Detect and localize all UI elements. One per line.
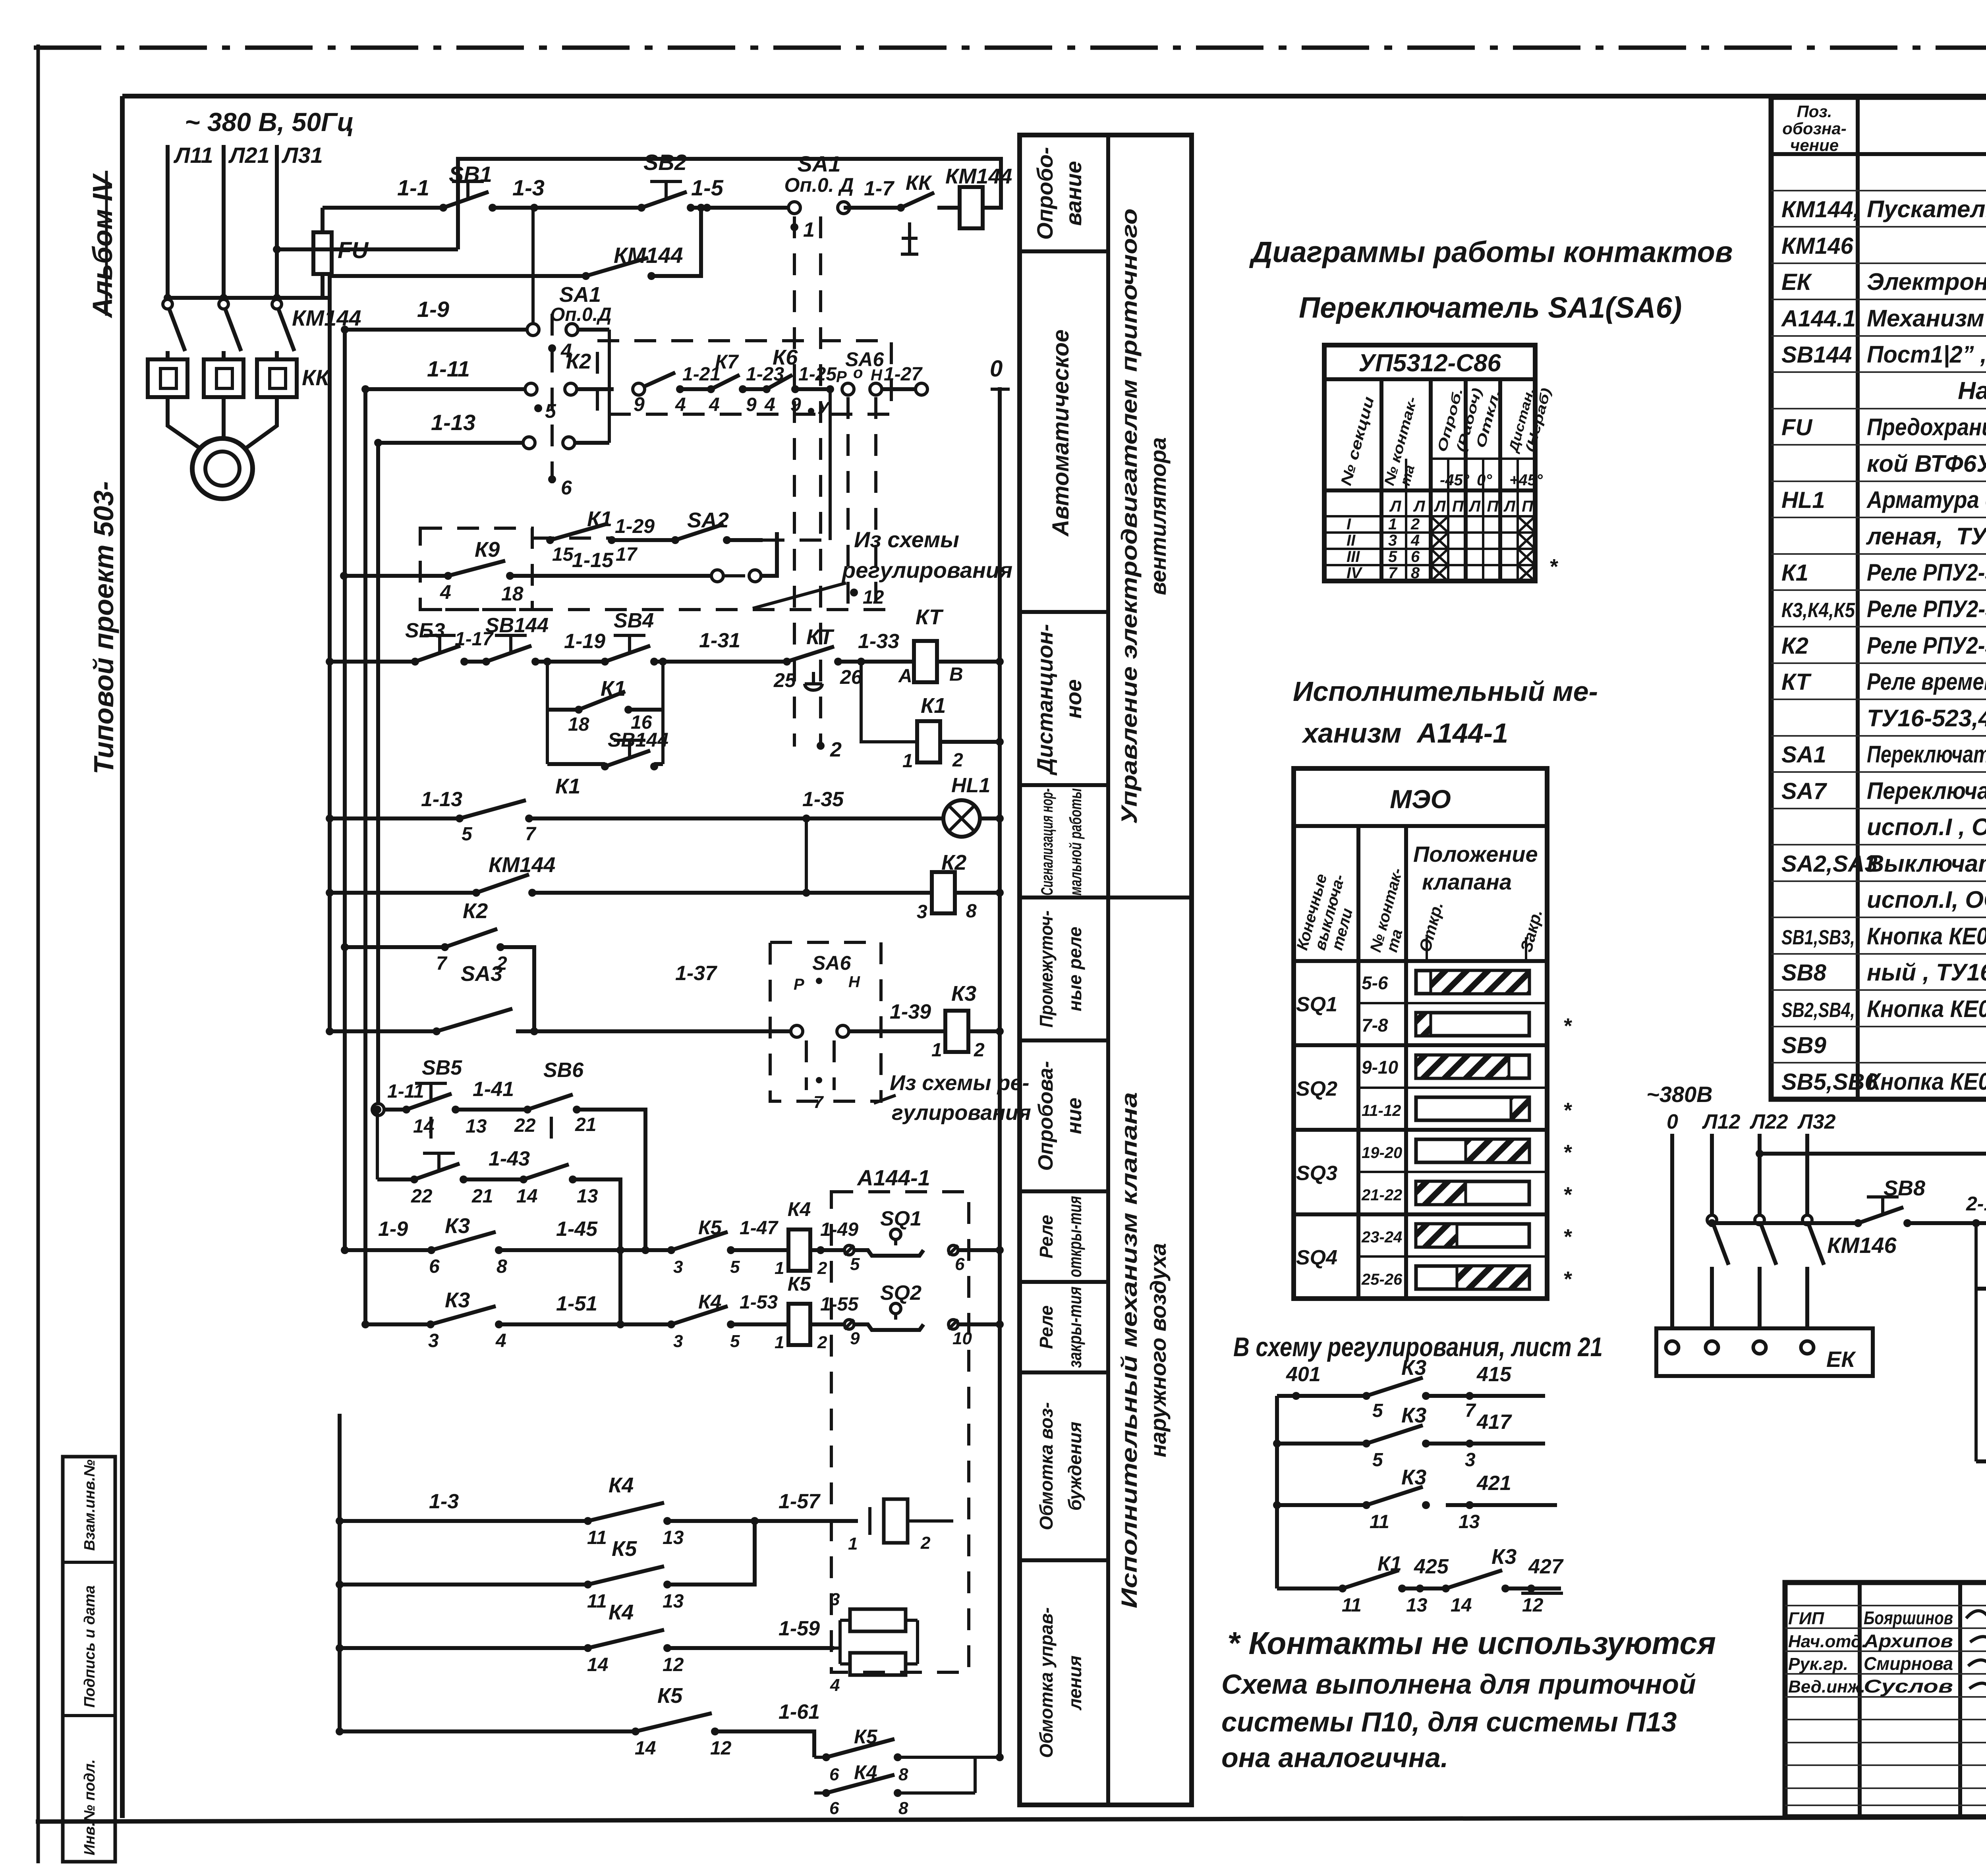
svg-text:SВ2,SВ4,: SВ2,SВ4, — [1781, 999, 1855, 1022]
rung R20 K5 — [340, 1583, 588, 1586]
svg-text:1-13: 1-13 — [421, 788, 462, 811]
svg-text:1-3: 1-3 — [512, 175, 545, 200]
svg-text:1-13: 1-13 — [431, 410, 475, 435]
svg-text:14: 14 — [1451, 1595, 1472, 1616]
svg-text:К3: К3 — [445, 1214, 470, 1238]
svg-text:Л: Л — [1468, 498, 1481, 515]
svg-text:Кнопка КЕ011УЗ,испол.5,толкате: Кнопка КЕ011УЗ,испол.5,толкатель крас- — [1867, 923, 1986, 950]
svg-text:13: 13 — [663, 1591, 684, 1612]
svg-text:К3: К3 — [1401, 1356, 1426, 1380]
svg-text:HL1: HL1 — [951, 774, 990, 797]
svg-text:КТ: КТ — [806, 625, 835, 649]
svg-text:II: II — [1347, 532, 1356, 549]
svg-text:+45°: +45° — [1509, 471, 1543, 489]
svg-text:*: * — [1549, 555, 1559, 579]
svg-text:19-20: 19-20 — [1362, 1144, 1402, 1162]
svg-text:6: 6 — [955, 1255, 965, 1274]
svg-text:КМ144: КМ144 — [945, 164, 1012, 188]
svg-text:1-29: 1-29 — [615, 515, 655, 537]
rung R16 test row2 — [376, 1110, 379, 1179]
svg-text:Выключатель пакетный ПВ1-10УЗ,: Выключатель пакетный ПВ1-10УЗ, — [1867, 850, 1986, 877]
reg rung 421 — [1277, 1503, 1366, 1507]
svg-text:2: 2 — [817, 1258, 827, 1278]
svg-text:Реле: Реле — [1036, 1305, 1057, 1349]
svg-text:К3: К3 — [1401, 1403, 1426, 1427]
svg-text:ТУ16-523,472-79: ТУ16-523,472-79 — [1867, 705, 1986, 731]
svg-text:417: 417 — [1476, 1411, 1512, 1434]
svg-text:23-24: 23-24 — [1361, 1229, 1402, 1246]
svg-text:4: 4 — [764, 394, 775, 415]
svg-text:Л: Л — [1413, 498, 1426, 515]
svg-text:14: 14 — [635, 1738, 656, 1759]
svg-text:системы П10, для системы П13: системы П10, для системы П13 — [1221, 1706, 1677, 1737]
svg-text:1-39: 1-39 — [890, 1000, 931, 1023]
svg-text:SA1: SA1 — [1781, 742, 1826, 768]
rung R7 K9 from regulation — [420, 528, 532, 610]
svg-text:4: 4 — [830, 1675, 840, 1695]
svg-text:1-43: 1-43 — [489, 1147, 530, 1170]
svg-text:Л31: Л31 — [281, 143, 323, 168]
POWER SECTION — [148, 107, 369, 499]
svg-text:1-59: 1-59 — [779, 1617, 820, 1640]
reg rung 401 — [1292, 1392, 1300, 1400]
svg-text:К3,К4,К5: К3,К4,К5 — [1781, 599, 1855, 622]
svg-text:9: 9 — [746, 394, 757, 415]
rung R19 field winding K4 — [340, 1519, 588, 1523]
svg-text:13: 13 — [1406, 1595, 1428, 1616]
svg-text:~380В: ~380В — [1646, 1082, 1713, 1107]
svg-text:Вед.инж.: Вед.инж. — [1788, 1677, 1865, 1697]
rung R3 wire 1-9 — [345, 328, 527, 332]
svg-text:Исполнительный ме-: Исполнительный ме- — [1293, 676, 1598, 707]
svg-text:Л12: Л12 — [1702, 1110, 1741, 1133]
svg-text:25: 25 — [773, 669, 796, 691]
motor M — [168, 411, 201, 449]
svg-text:Механизм исполнительный МЭО: Механизм исполнительный МЭО — [1867, 305, 1986, 332]
svg-text:4: 4 — [675, 394, 686, 415]
HEATER CIRCUIT — [1646, 1082, 1986, 1489]
svg-text:5: 5 — [730, 1332, 740, 1351]
drawing frame top line — [122, 94, 1986, 98]
svg-text:SВ5,SВ6: SВ5,SВ6 — [1781, 1069, 1878, 1095]
svg-text:вание: вание — [1061, 161, 1086, 226]
svg-text:0°: 0° — [1477, 471, 1492, 489]
svg-text:о: о — [853, 364, 863, 382]
svg-text:13: 13 — [1459, 1511, 1480, 1532]
svg-text:Рук.гр.: Рук.гр. — [1788, 1654, 1848, 1674]
svg-text:421: 421 — [1476, 1472, 1511, 1495]
svg-text:5: 5 — [462, 824, 473, 845]
svg-text:Реле времени РВП72-3122У4,~220: Реле времени РВП72-3122У4,~220В,8,8=3мин — [1867, 668, 1986, 695]
svg-text:П: П — [1487, 498, 1499, 515]
svg-text:21: 21 — [575, 1114, 596, 1135]
svg-text:* Контакты не используются: * Контакты не используются — [1227, 1625, 1716, 1661]
svg-text:*: * — [1563, 1225, 1573, 1249]
ACTUATOR TABLE MEO — [1293, 768, 1573, 1299]
svg-text:SВ1: SВ1 — [449, 162, 492, 187]
svg-text:I: I — [1347, 515, 1351, 533]
svg-text:Н: Н — [848, 973, 860, 991]
svg-text:На щите управления: На щите управления — [1958, 377, 1986, 405]
svg-text:К2: К2 — [1781, 633, 1808, 659]
svg-text:откры-тия: откры-тия — [1064, 1196, 1085, 1278]
svg-text:1: 1 — [775, 1333, 784, 1352]
svg-text:Л: Л — [1433, 498, 1446, 515]
svg-text:К2: К2 — [566, 349, 591, 373]
svg-text:*: * — [1563, 1014, 1573, 1038]
relay coil K1 — [861, 662, 917, 742]
svg-text:2: 2 — [974, 1040, 985, 1061]
svg-text:КТ: КТ — [1781, 669, 1812, 695]
REGULATION SCHEME LADDER — [1221, 1332, 1716, 1773]
svg-text:А144.1: А144.1 — [1781, 306, 1856, 332]
svg-text:1-1: 1-1 — [397, 175, 429, 200]
feed wire top — [1760, 1154, 1986, 1317]
svg-text:гулирования: гулирования — [892, 1101, 1031, 1125]
svg-text:Переключатель пакетный ПП2-10/: Переключатель пакетный ПП2-10/Н2УЗ, — [1867, 778, 1986, 804]
CONTROL LADDER — [273, 150, 1012, 1324]
svg-text:5: 5 — [850, 1255, 860, 1274]
svg-text:Смирнова: Смирнова — [1864, 1653, 1953, 1674]
svg-text:Обмотка управ-: Обмотка управ- — [1036, 1607, 1057, 1758]
rung R2 KM144 seal-in — [330, 274, 586, 278]
svg-text:4: 4 — [709, 394, 720, 415]
svg-text:7: 7 — [813, 1092, 824, 1112]
svg-text:3: 3 — [673, 1332, 683, 1351]
svg-text:9: 9 — [634, 393, 645, 415]
svg-text:Опробо-: Опробо- — [1032, 147, 1057, 240]
phase line L31 — [275, 145, 279, 298]
svg-text:П: П — [1452, 498, 1464, 515]
svg-text:9-10: 9-10 — [1362, 1057, 1398, 1078]
svg-text:МЭО: МЭО — [1390, 784, 1451, 814]
svg-text:ЕК: ЕК — [1781, 269, 1812, 295]
svg-text:Переключатель УП5312-С86УЗ,ТУ1: Переключатель УП5312-С86УЗ,ТУ16-524,074-… — [1867, 741, 1986, 768]
svg-text:15: 15 — [552, 544, 574, 565]
svg-text:FU: FU — [1781, 415, 1813, 440]
wire 1-5 — [691, 206, 788, 210]
svg-text:1: 1 — [1388, 515, 1397, 533]
svg-text:КМ144,: КМ144, — [1781, 197, 1860, 222]
svg-text:КМ144: КМ144 — [292, 305, 361, 330]
svg-text:4: 4 — [495, 1330, 506, 1351]
rung R12 K2 coil — [330, 891, 476, 895]
drawing frame left line — [120, 96, 125, 1818]
svg-text:Суслов: Суслов — [1864, 1676, 1953, 1697]
svg-text:*: * — [1563, 1183, 1573, 1206]
svg-text:7: 7 — [1388, 564, 1398, 582]
svg-text:*: * — [1563, 1098, 1573, 1122]
svg-text:Исполнительный механизм клапан: Исполнительный механизм клапана — [1117, 1092, 1142, 1608]
svg-text:Л21: Л21 — [228, 143, 270, 168]
svg-text:К4: К4 — [609, 1473, 634, 1497]
svg-text:Л32: Л32 — [1797, 1110, 1836, 1133]
thermal contact KK — [897, 204, 905, 212]
top dash-dot sheet border — [34, 46, 1986, 50]
svg-text:6: 6 — [1411, 548, 1420, 566]
svg-text:КК: КК — [302, 365, 330, 390]
svg-text:1-57: 1-57 — [779, 1490, 821, 1513]
svg-text:П: П — [1522, 498, 1534, 515]
svg-text:буждения: буждения — [1064, 1422, 1085, 1511]
svg-text:401: 401 — [1286, 1363, 1321, 1386]
svg-text:6: 6 — [561, 477, 572, 499]
svg-text:3: 3 — [673, 1257, 683, 1277]
rung R1 wire — [323, 206, 442, 210]
svg-text:III: III — [1347, 548, 1360, 566]
svg-text:12: 12 — [663, 1654, 684, 1675]
svg-text:Диаграммы работы контактов: Диаграммы работы контактов — [1249, 235, 1733, 268]
svg-text:1-9: 1-9 — [417, 297, 449, 322]
control rung SB8 SB9 — [1712, 1221, 1858, 1225]
svg-text:Пост1|2” , ПКЕ712-2УЗ „ТУ16-52: Пост1|2” , ПКЕ712-2УЗ „ТУ16-526.216-78 — [1867, 341, 1986, 368]
svg-text:13: 13 — [577, 1186, 598, 1207]
svg-text:1-41: 1-41 — [473, 1078, 514, 1101]
svg-text:SA1: SA1 — [798, 151, 841, 176]
svg-text:испол.I , ОСТ16.0526.001-77: испол.I , ОСТ16.0526.001-77 — [1867, 814, 1986, 840]
svg-text:1-47: 1-47 — [740, 1218, 779, 1239]
svg-text:SВ2: SВ2 — [643, 150, 687, 175]
svg-text:1-9: 1-9 — [378, 1218, 408, 1241]
svg-text:1-37: 1-37 — [675, 962, 717, 985]
interlock contact row K2 K7 K6 SA6 — [597, 341, 891, 414]
svg-text:2-1: 2-1 — [1966, 1193, 1986, 1215]
svg-text:Нач.отд.: Нач.отд. — [1788, 1632, 1866, 1651]
svg-text:SQ1: SQ1 — [880, 1207, 922, 1230]
svg-text:Н: Н — [871, 367, 883, 384]
svg-text:21-22: 21-22 — [1361, 1186, 1402, 1204]
svg-text:Реле РПУ2-36200ЗУЗ,~220В,ТУ16-: Реле РПУ2-36200ЗУЗ,~220В,ТУ16-523,331-78 — [1867, 632, 1986, 659]
switch SA6 lower — [770, 942, 881, 1101]
svg-text:SВ6: SВ6 — [543, 1059, 584, 1082]
vertical tie rung4 to rung6 — [829, 389, 832, 540]
svg-text:А: А — [898, 666, 912, 687]
svg-text:5: 5 — [1388, 548, 1397, 566]
svg-text:обозна-: обозна- — [1782, 119, 1846, 138]
svg-text:6: 6 — [829, 1765, 839, 1784]
svg-text:SQ4: SQ4 — [1296, 1246, 1337, 1269]
svg-text:SВ4: SВ4 — [614, 609, 654, 632]
svg-text:SВ5: SВ5 — [422, 1056, 462, 1079]
svg-text:2: 2 — [952, 750, 963, 771]
rung R17 SQ1 open circuit — [345, 1248, 431, 1252]
svg-text:4: 4 — [440, 581, 451, 603]
seal branch K1 contact and SB144 — [546, 662, 549, 764]
svg-text:425: 425 — [1414, 1555, 1449, 1578]
svg-text:3: 3 — [1465, 1449, 1476, 1471]
svg-text:8: 8 — [898, 1799, 908, 1818]
svg-text:К9: К9 — [475, 538, 500, 562]
svg-text:Управление электродвигателем п: Управление электродвигателем приточного — [1117, 208, 1142, 824]
PARTS TABLE — [1771, 97, 1986, 1099]
svg-text:427: 427 — [1528, 1555, 1564, 1578]
svg-text:КМ146: КМ146 — [1781, 233, 1853, 259]
contactor KM146 main contacts — [1707, 1215, 1717, 1225]
svg-text:закры-тия: закры-тия — [1064, 1287, 1085, 1368]
svg-text:25-26: 25-26 — [1361, 1271, 1403, 1288]
svg-text:4: 4 — [1410, 532, 1420, 549]
svg-text:чение: чение — [1790, 136, 1839, 154]
svg-text:КТ: КТ — [916, 605, 944, 629]
svg-text:11-12: 11-12 — [1362, 1102, 1401, 1119]
svg-text:КК: КК — [906, 172, 932, 195]
svg-text:SQ2: SQ2 — [880, 1282, 922, 1305]
svg-text:Из схемы ре-: Из схемы ре- — [890, 1071, 1030, 1095]
svg-text:11: 11 — [1342, 1595, 1362, 1616]
svg-text:5: 5 — [1372, 1400, 1383, 1421]
svg-text:3: 3 — [428, 1330, 439, 1351]
svg-text:Электронагреватель: Электронагреватель — [1867, 268, 1986, 295]
control winding coils — [838, 1620, 842, 1664]
rung R13 K2 contact — [345, 945, 445, 949]
svg-text:В: В — [949, 664, 963, 685]
svg-text:1-19: 1-19 — [564, 630, 605, 653]
top bus wire — [277, 247, 458, 251]
phase line L11 — [166, 145, 170, 298]
svg-text:вентилятора: вентилятора — [1146, 437, 1171, 595]
svg-text:8: 8 — [1411, 564, 1420, 582]
svg-text:Типовой проект 503-: Типовой проект 503- — [88, 481, 119, 774]
tie R11-R12 — [805, 818, 808, 893]
svg-text:кой ВТФ6УЗ, ТУ16-521.037-75: кой ВТФ6УЗ, ТУ16-521.037-75 — [1867, 450, 1986, 477]
svg-text:12: 12 — [1522, 1595, 1544, 1616]
phase line L21 — [222, 145, 226, 298]
svg-text:Промежуточ-: Промежуточ- — [1036, 911, 1057, 1028]
margin text Album IV — [87, 171, 118, 318]
svg-text:7: 7 — [1465, 1400, 1476, 1421]
svg-text:Подпись и дата: Подпись и дата — [81, 1585, 98, 1708]
svg-text:Предохранитель ППТ-10 с плавко: Предохранитель ППТ-10 с плавкой встав- — [1867, 414, 1986, 440]
svg-text:1-45: 1-45 — [556, 1218, 598, 1241]
svg-text:УП5312-С86: УП5312-С86 — [1358, 349, 1501, 377]
svg-text:Л: Л — [1389, 498, 1402, 515]
wire 1-7 — [844, 206, 901, 210]
svg-text:1-3: 1-3 — [429, 1490, 459, 1513]
svg-text:14: 14 — [516, 1186, 537, 1207]
rung R5 wire 1-13 — [378, 441, 523, 445]
wire 1-3 — [493, 206, 639, 210]
svg-text:22: 22 — [514, 1115, 536, 1136]
SWITCH TABLE UP5312-C86 — [1324, 345, 1559, 582]
svg-text:1-55: 1-55 — [820, 1294, 859, 1315]
left rail 1 — [328, 276, 332, 1031]
svg-text:К5: К5 — [657, 1684, 683, 1708]
svg-text:ние: ние — [1063, 1098, 1086, 1134]
heater EK — [1656, 1328, 1873, 1376]
pushbutton SB2 — [638, 204, 645, 212]
actuator box A144-1 — [831, 1192, 969, 1672]
svg-text:8: 8 — [496, 1256, 507, 1277]
bottom left rail — [338, 1414, 342, 1731]
thermal relay KK heaters — [148, 359, 187, 397]
svg-text:SQ3: SQ3 — [1296, 1162, 1337, 1185]
contactor coil KM144 — [960, 187, 983, 228]
svg-text:Оп.0.Д: Оп.0.Д — [550, 304, 612, 325]
left rail 4 — [376, 443, 380, 1110]
svg-text:Реле РПУ2-362023УЗ,~220В ТУ16-: Реле РПУ2-362023УЗ,~220В ТУ16-523,331-78 — [1867, 596, 1986, 622]
svg-text:2: 2 — [817, 1333, 827, 1352]
svg-text:1-25: 1-25 — [798, 364, 837, 385]
heater phase lines — [1670, 1134, 1674, 1331]
svg-text:Арматура светосигнальная АСЛ11: Арматура светосигнальная АСЛ11У2, зе- — [1866, 486, 1986, 513]
svg-text:22: 22 — [411, 1186, 433, 1207]
svg-text:1: 1 — [848, 1534, 858, 1554]
rung R14 SA3 K3 coil — [330, 1029, 437, 1033]
reg rail — [1275, 1396, 1279, 1588]
bottom sheet border — [36, 1816, 1986, 1822]
svg-text:2: 2 — [920, 1533, 931, 1553]
svg-text:1-5: 1-5 — [691, 175, 724, 200]
svg-text:1-27: 1-27 — [884, 364, 923, 385]
svg-text:SA1: SA1 — [559, 283, 601, 307]
svg-text:наружного воздуха: наружного воздуха — [1146, 1243, 1171, 1457]
svg-text:Л11: Л11 — [173, 143, 213, 168]
svg-text:Дистанцион-: Дистанцион- — [1032, 624, 1057, 776]
svg-text:6: 6 — [829, 1799, 839, 1818]
svg-text:Поз.: Поз. — [1797, 102, 1832, 121]
svg-text:ханизм А144-1: ханизм А144-1 — [1301, 718, 1508, 749]
svg-text:1-53: 1-53 — [740, 1292, 778, 1313]
left sheet border — [37, 44, 40, 1863]
svg-text:~ 380 В, 50Гц: ~ 380 В, 50Гц — [185, 107, 354, 137]
svg-text:12: 12 — [863, 587, 884, 608]
bottom contact K4 — [974, 1757, 977, 1793]
fuse FU — [321, 274, 325, 298]
excitation winding — [868, 1507, 871, 1535]
svg-text:К5: К5 — [788, 1273, 811, 1295]
svg-text:К3: К3 — [1401, 1465, 1426, 1489]
svg-text:415: 415 — [1476, 1363, 1512, 1386]
svg-text:8: 8 — [966, 901, 977, 922]
svg-text:7: 7 — [436, 953, 448, 974]
svg-text:*: * — [1563, 1267, 1573, 1291]
reg rung 425 427 — [1277, 1586, 1343, 1590]
svg-text:26: 26 — [840, 666, 863, 688]
svg-text:она аналогична.: она аналогична. — [1221, 1742, 1448, 1773]
svg-text:К5: К5 — [612, 1537, 637, 1561]
switch SA1 contacts — [788, 202, 800, 214]
svg-text:SВ1,SВ3,: SВ1,SВ3, — [1781, 926, 1855, 949]
svg-text:IV: IV — [1347, 564, 1363, 582]
svg-text:Схема выполнена для приточной: Схема выполнена для приточной — [1221, 1669, 1696, 1700]
stamp column bottom-left — [63, 1457, 115, 1862]
svg-text:К1: К1 — [921, 694, 946, 718]
reg rung 417 — [1277, 1442, 1366, 1446]
svg-text:клапана: клапана — [1422, 869, 1512, 894]
svg-text:12: 12 — [710, 1738, 732, 1759]
svg-text:1: 1 — [902, 751, 913, 772]
svg-text:Альбом IV: Альбом IV — [87, 173, 118, 318]
rung R6 K1 SA2 — [546, 536, 554, 544]
svg-text:1: 1 — [931, 1040, 942, 1061]
svg-text:14: 14 — [587, 1654, 608, 1675]
svg-text:HL1: HL1 — [1781, 487, 1825, 513]
svg-text:КМ144: КМ144 — [489, 853, 555, 877]
svg-text:ные реле: ные реле — [1064, 926, 1085, 1011]
svg-text:К1: К1 — [555, 774, 580, 798]
svg-text:SQ2: SQ2 — [1296, 1077, 1337, 1100]
svg-text:18: 18 — [568, 714, 589, 735]
SA1 column verticals — [531, 208, 535, 324]
svg-text:Из схемы: Из схемы — [854, 527, 959, 552]
rung R18 SQ2 close circuit — [365, 1322, 431, 1326]
svg-text:К7: К7 — [715, 351, 739, 373]
svg-text:Реле: Реле — [1036, 1215, 1057, 1258]
function label column — [1020, 135, 1192, 1805]
svg-text:9: 9 — [850, 1329, 860, 1348]
svg-text:1-15: 1-15 — [572, 549, 614, 572]
svg-text:Инв.№ подл.: Инв.№ подл. — [81, 1759, 98, 1855]
